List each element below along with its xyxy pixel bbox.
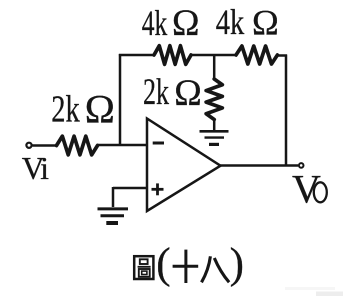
svg-text:V: V <box>292 167 321 212</box>
svg-text:Ω: Ω <box>174 73 202 114</box>
svg-text:2k: 2k <box>51 89 80 131</box>
svg-text:i: i <box>40 151 49 186</box>
svg-text:4k: 4k <box>216 2 245 42</box>
svg-text:Ω: Ω <box>85 86 115 131</box>
svg-text:2k: 2k <box>143 72 169 113</box>
svg-text:4k: 4k <box>142 3 168 43</box>
svg-text:): ) <box>230 240 244 287</box>
svg-text:(: ( <box>156 240 170 287</box>
svg-text:Ω: Ω <box>252 3 279 43</box>
svg-text:Ω: Ω <box>172 3 200 44</box>
